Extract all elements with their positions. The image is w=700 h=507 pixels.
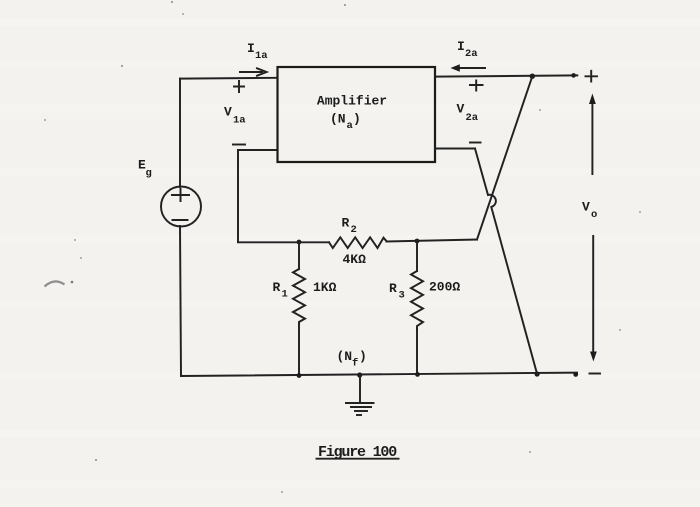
node: R3 top junction [415,239,420,244]
svg-text:1KΩ: 1KΩ [313,280,337,295]
wire: top right horizontal [435,75,577,76]
ground [346,375,374,415]
polarity V1a minus [233,144,245,146]
label Na [330,112,361,133]
svg-text:1: 1 [282,289,288,301]
voltage source Eg [161,187,201,227]
wire: R2 left rail [238,241,329,243]
current arrow I2a [451,64,486,71]
polarity V1a plus [234,81,244,92]
node: output bottom junction [535,371,540,376]
svg-text:V: V [582,200,590,215]
svg-text:): ) [353,112,361,127]
arrow Vo down [590,236,597,362]
wire: diagonal R2 rail to output top [477,76,532,239]
wire: diagonal V2a- to bottom with hop [475,149,537,375]
node: R1 bottom junction [297,373,302,378]
svg-text:V: V [457,102,465,117]
svg-text:2a: 2a [465,48,478,60]
node: R1 top junction [297,240,302,245]
node: R3 bottom junction [415,372,420,377]
caption Figure 100 [317,444,399,461]
stray speck dot [71,281,74,284]
svg-text:R: R [273,280,281,295]
svg-text:R: R [389,281,397,296]
current arrow I1a [240,68,267,75]
svg-text:4KΩ: 4KΩ [343,252,367,267]
polarity output plus [586,71,598,82]
resistor R1 [293,242,305,376]
polarity V2a plus [470,81,483,91]
svg-text:g: g [146,168,152,180]
label V1a [224,105,246,127]
polarity V2a minus [470,142,481,144]
amplifier U Na box [278,67,436,162]
wire: bottom rail [181,373,577,376]
wire: V1a minus step to feedback rail [238,150,277,242]
arrow Vo up [589,94,596,175]
resistor R2 [329,237,387,248]
wire: top left horizontal [180,77,277,80]
wire: V2a minus stub [435,148,475,150]
svg-text:): ) [359,349,367,364]
svg-text:2a: 2a [466,112,479,124]
svg-text:3: 3 [399,290,405,302]
node: ground junction [357,372,362,377]
wire: source top vertical [179,79,181,187]
svg-text:f: f [352,358,358,370]
polarity output minus [590,373,601,375]
node: output bottom terminal [573,372,578,377]
svg-text:R: R [342,216,350,231]
svg-text:200Ω: 200Ω [429,280,460,295]
label I1a [247,41,268,62]
svg-text:Amplifier: Amplifier [317,94,387,109]
label I2a [457,39,478,60]
node: output top terminal [571,73,576,78]
svg-text:1a: 1a [255,50,268,62]
svg-text:V: V [224,105,232,120]
svg-text:I: I [247,41,255,56]
wire: R2 right rail [387,240,478,242]
resistor R3 [411,241,423,374]
wire: source bottom vertical [180,226,181,376]
label Vo [582,200,597,222]
svg-text:2: 2 [351,224,357,236]
label node Nf [337,349,367,370]
svg-text:o: o [591,209,597,221]
node: output top junction [530,74,535,79]
stray arc mark [45,281,65,286]
svg-text:(N: (N [330,112,346,127]
svg-text:1a: 1a [233,115,246,127]
svg-text:I: I [457,39,465,54]
label V2a [457,102,479,125]
svg-text:(N: (N [337,349,353,364]
